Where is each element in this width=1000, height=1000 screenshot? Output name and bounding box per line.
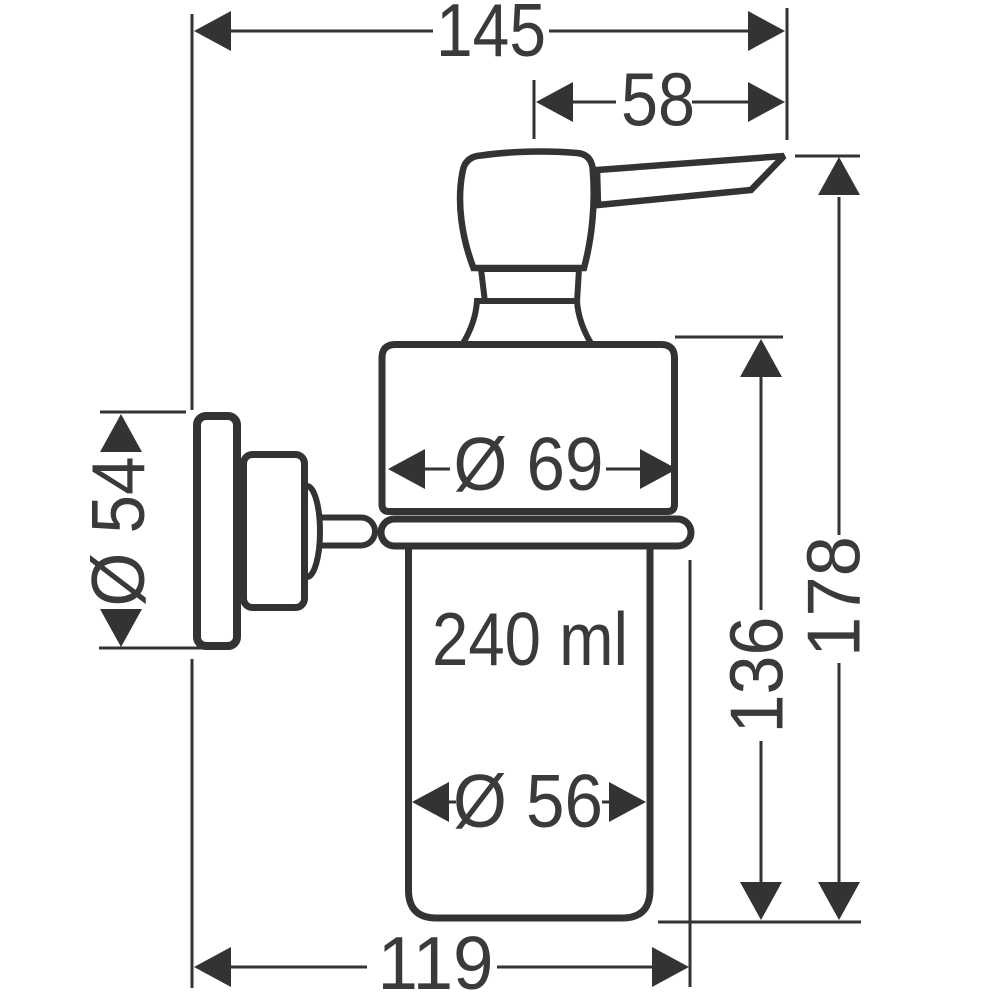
dim 58 line <box>573 101 616 104</box>
extension line dia54 bottom <box>99 647 203 650</box>
svg-text:136: 136 <box>715 617 799 734</box>
dim 178 line <box>838 197 841 535</box>
dim dia69 arrow right <box>640 449 677 489</box>
extension line 178 top <box>795 155 860 158</box>
dim dia54 arrow up <box>100 414 142 452</box>
collar ring <box>381 519 691 546</box>
dim dia54 arrow down <box>100 609 142 647</box>
extension line right x787 <box>786 8 789 140</box>
svg-text:119: 119 <box>378 921 494 1000</box>
svg-text:Ø 69: Ø 69 <box>454 422 604 506</box>
dim 145 line <box>230 30 433 33</box>
holder arm <box>318 518 375 546</box>
pump knob <box>460 152 594 268</box>
dim dia69 line <box>425 468 450 471</box>
dim 119 arrow left <box>194 947 231 987</box>
dim dia69 arrow left <box>388 449 425 489</box>
extension line 119 right x690 <box>689 560 692 987</box>
dim 145 arrow right <box>748 11 785 51</box>
svg-text:Ø 54: Ø 54 <box>76 457 160 607</box>
wall mount body <box>244 455 305 608</box>
dim 119 arrow right <box>652 947 689 987</box>
dim 136 line <box>760 376 763 610</box>
bottle body 240ml <box>409 546 651 918</box>
pump neck flare <box>462 301 592 345</box>
wall plate <box>197 416 237 646</box>
pump spout lever <box>597 156 784 205</box>
pump neck upper ring <box>481 269 579 302</box>
dim 119 line <box>231 966 367 969</box>
dim 58 arrow left <box>536 82 573 122</box>
svg-text:178: 178 <box>792 536 876 657</box>
svg-text:58: 58 <box>621 58 695 142</box>
extension line left x192 lower <box>191 659 194 988</box>
dim 136 arrow down <box>740 882 782 920</box>
extension line 58 left x534 <box>533 80 536 139</box>
dim 145 arrow left <box>194 11 231 51</box>
extension line bottom right y922 <box>658 921 861 924</box>
dim 178 arrow down <box>818 882 860 920</box>
extension line left x192 upper <box>191 14 194 410</box>
svg-text:145: 145 <box>436 0 546 72</box>
svg-text:Ø 56: Ø 56 <box>453 759 603 843</box>
extension line 136 top <box>675 336 783 339</box>
dim dia56 line <box>449 801 456 804</box>
dim 58 arrow right <box>748 82 785 122</box>
dim dia56 arrow left <box>412 782 449 822</box>
dim 136 arrow up <box>740 339 782 377</box>
dim dia56 arrow right <box>609 782 646 822</box>
svg-text:240 ml: 240 ml <box>432 597 628 681</box>
holder cone <box>294 486 320 577</box>
dim 178 arrow up <box>818 157 860 195</box>
extension line dia54 top <box>100 411 186 414</box>
dispenser cap head <box>382 345 675 512</box>
